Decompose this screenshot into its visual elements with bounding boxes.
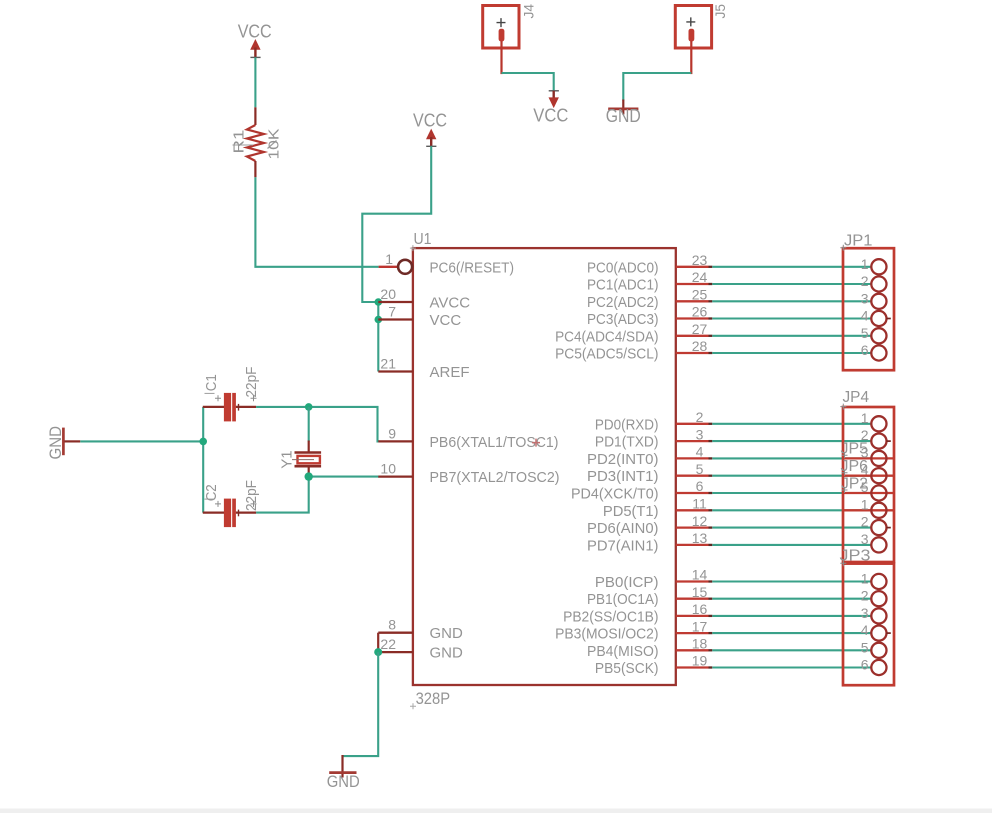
wire C1 to junction [256,406,309,408]
svg-text:VCC: VCC [430,312,462,329]
ground GND (below J5) [606,100,641,126]
pin 14 PB0(ICP) stub [595,567,712,591]
supply VCC (middle) [413,111,447,147]
svg-text:PD6(AIN0): PD6(AIN0) [587,520,659,537]
svg-text:20: 20 [380,286,396,302]
svg-text:1: 1 [861,410,869,426]
svg-text:1: 1 [861,571,869,587]
svg-text:PB0(ICP): PB0(ICP) [595,574,659,591]
junction at VCC [375,316,383,324]
svg-text:GND: GND [606,106,641,126]
svg-text:25: 25 [692,287,708,303]
svg-text:GND: GND [430,645,464,662]
wire PC0(ADC0) to header [712,266,871,268]
pin 2 PD0(RXD) stub [595,409,712,433]
wire PC5(ADC5/SCL) to header [712,352,871,354]
svg-text:1: 1 [861,256,869,272]
connector J4 (solder pad) [483,4,537,48]
stack row7 tick [887,527,891,529]
stack pin row 2 [861,427,887,449]
stack pin row 4 [861,462,887,484]
wire PC1(ADC1) to header [712,283,871,285]
wire J5 lead [690,41,692,74]
pin 9 PB6 stub [378,425,413,441]
wire VCC to R1 [254,57,256,107]
svg-text:PC5(ADC5/SCL): PC5(ADC5/SCL) [555,346,658,363]
svg-text:21: 21 [380,356,396,372]
U1 label [410,231,432,251]
pin 18 PB4(MISO) stub [587,636,712,660]
svg-text:7: 7 [388,304,396,320]
op IC U1 ATmega328P box [413,248,676,685]
pin 6 PD4(XCK/T0) stub [571,478,712,502]
resistor R1 10K [231,107,283,177]
svg-text:27: 27 [692,321,708,337]
svg-text:C1: C1 [203,374,220,391]
JP1 pin 4 [861,308,887,327]
svg-text:26: 26 [692,304,708,320]
wire PB2(SS/OC1B) to header [712,615,871,617]
wire PC4(ADC4/SDA) to header [712,335,871,337]
wire PC2(ADC2) to header [712,300,871,302]
JP3 pin 5 [861,639,887,658]
wire PD1(TXD) to header [712,440,871,442]
svg-text:5: 5 [861,325,869,341]
svg-text:PC4(ADC4/SDA): PC4(ADC4/SDA) [555,328,658,345]
svg-text:U1: U1 [414,231,432,248]
stack row2 tick [887,440,891,442]
svg-text:16: 16 [692,601,708,617]
supply VCC (below J4, arrow down) [533,91,568,126]
svg-text:6: 6 [696,478,704,494]
stack pin row 7 [861,514,887,536]
JP3 pin 3 [861,605,887,624]
svg-text:PD7(AIN1): PD7(AIN1) [587,537,659,554]
svg-text:PD5(T1): PD5(T1) [603,503,659,520]
svg-text:8: 8 [388,617,396,633]
stack pin row 8 [861,531,887,553]
svg-text:PC2(ADC2): PC2(ADC2) [587,294,659,311]
wire PD0(RXD) to header [712,423,871,425]
crystal Y1 [278,441,321,478]
pin 3 PD1(TXD) stub [595,426,712,450]
JP1 pin 1 [861,256,887,275]
pin 28 PC5(ADC5/SCL) stub [555,338,712,362]
wire PD3(INT1) to header [712,475,871,477]
svg-text:1: 1 [385,251,393,267]
pin 5 PD3(INT1) stub [587,461,712,485]
svg-text:3: 3 [861,605,869,621]
pin 23 PC0(ADC0) stub [587,252,712,276]
wire PD2(INT0) to header [712,457,871,459]
wire Y1 down to C2 [256,477,309,513]
wire Y1 to PB7 [309,476,379,478]
stack pin row 6 [861,496,887,518]
pin 4 PD2(INT0) stub [587,444,712,468]
wire VCC to AVCC/VCC pins [362,146,431,302]
stack pin row 1 [861,410,887,432]
wire PD7(AIN1) to header [712,544,871,546]
svg-text:6: 6 [861,657,869,673]
JP3 pin4 tick [887,632,891,634]
svg-text:JP1: JP1 [844,233,873,250]
connector J5 (solder pad) [675,4,728,48]
pin 27 PC4(ADC4/SDA) stub [555,321,712,345]
wire junction down to Y1 [308,407,310,442]
pin 25 PC2(ADC2) stub [587,287,712,311]
pin 16 PB2(SS/OC1B) stub [563,601,712,625]
pin 17 PB3(MOSI/OC2) stub [555,618,712,642]
svg-text:JP4: JP4 [843,389,870,406]
svg-text:2: 2 [696,409,704,425]
wire junction to PB6 [309,407,380,442]
svg-text:5: 5 [696,461,704,477]
svg-text:JP3: JP3 [840,547,871,564]
svg-text:10: 10 [380,461,396,477]
bottom gray strip [0,809,992,813]
svg-text:1: 1 [861,496,869,512]
svg-text:18: 18 [692,636,708,652]
wire J4 to VCC [502,73,554,91]
JP1 pin 2 [861,273,887,292]
svg-text:22pF: 22pF [243,480,260,511]
wire PD6(AIN0) to header [712,527,871,529]
svg-text:15: 15 [692,584,708,600]
ground GND (bottom) [327,755,360,791]
wire U1 GND down [343,652,379,756]
junction GND/caps [199,438,207,446]
junction Y1/PB7 [305,472,313,480]
svg-text:AVCC: AVCC [430,295,471,312]
svg-text:VCC: VCC [533,106,568,126]
svg-text:9: 9 [388,425,396,441]
pin 11 PD5(T1) stub [603,496,712,520]
slashed zero in 10K [268,141,277,149]
svg-text:R1: R1 [231,130,248,154]
pin 26 PC3(ADC3) stub [587,304,712,328]
svg-text:24: 24 [692,269,708,285]
svg-text:22pF: 22pF [243,367,260,398]
wire PB0(ICP) to header [712,580,871,582]
JP3 pin 1 [861,571,887,590]
svg-text:12: 12 [692,513,708,529]
svg-text:PC3(ADC3): PC3(ADC3) [587,311,659,328]
JP3 pin 4 [861,622,887,641]
wire PB5(SCK) to header [712,666,871,668]
svg-text:PB3(MOSI/OC2): PB3(MOSI/OC2) [555,626,658,643]
JP1 pin 3 [861,290,887,309]
pin 22 GND22 stub [378,636,413,652]
JP1 pin 5 [861,325,887,344]
svg-text:VCC: VCC [413,111,447,131]
wire PD5(T1) to header [712,509,871,511]
JP1 pin 6 [861,342,887,361]
pin 10 PB7 stub [378,461,413,477]
svg-text:28: 28 [692,338,708,354]
pin 20 AVCC stub [378,286,413,302]
label JP6 [841,458,869,476]
wire GND pin8 to pin22 [377,633,379,652]
svg-text:4: 4 [861,308,869,324]
connector JP1 [840,233,894,371]
svg-text:PD3(INT1): PD3(INT1) [587,468,659,485]
wire caps vertical [202,407,204,513]
svg-text:19: 19 [692,653,708,669]
svg-text:2: 2 [861,588,869,604]
svg-text:AREF: AREF [430,364,470,381]
svg-text:3: 3 [861,531,869,547]
svg-text:23: 23 [692,252,708,268]
svg-text:2: 2 [861,514,869,530]
svg-text:3: 3 [696,426,704,442]
svg-text:PC6(/RESET): PC6(/RESET) [430,259,515,276]
svg-text:PD4(XCK/T0): PD4(XCK/T0) [571,486,659,503]
svg-text:PB4(MISO): PB4(MISO) [587,643,659,660]
svg-text:GND: GND [430,625,464,642]
svg-text:3: 3 [861,290,869,306]
wire PB3(MOSI/OC2) to header [712,632,871,634]
JP3 pin 6 [861,657,887,676]
svg-text:2: 2 [861,273,869,289]
wire GND to caps [80,440,203,442]
svg-text:J4: J4 [520,4,536,19]
JP3 pin 2 [861,588,887,607]
svg-text:PD2(INT0): PD2(INT0) [587,451,659,468]
svg-text:4: 4 [696,444,704,460]
svg-text:4: 4 [861,622,869,638]
supply VCC (top left) [238,22,272,58]
wire J4 lead [500,41,502,74]
junction GND pin22 [374,648,382,656]
wire J5 to GND [623,73,691,101]
label JP2 [841,475,868,493]
svg-text:6: 6 [861,342,869,358]
wire R1 to U1 pin1 [255,177,378,266]
svg-text:17: 17 [692,618,708,634]
value 328P [410,689,450,709]
svg-text:VCC: VCC [238,22,272,42]
pin 12 PD6(AIN0) stub [587,513,712,537]
wire PB4(MISO) to header [712,649,871,651]
pin 21 AREF stub [378,356,413,372]
pin 1 PC6(/RESET) stub [379,251,413,274]
svg-text:Y1: Y1 [278,450,295,469]
svg-text:PD0(RXD): PD0(RXD) [595,416,659,433]
junction C1/Y1 [305,403,313,411]
pin 19 PB5(SCK) stub [595,653,712,677]
stack pin row 3 [861,444,887,466]
pin 7 VCC stub [378,304,413,320]
label JP4 [840,389,869,409]
svg-text:328P: 328P [416,689,451,708]
svg-text:PD1(TXD): PD1(TXD) [595,434,659,451]
svg-text:J5: J5 [712,4,728,19]
svg-text:PC0(ADC0): PC0(ADC0) [587,259,659,276]
svg-text:22: 22 [380,636,396,652]
U1 left pin names [430,259,560,661]
JP1 pin4 tick [887,318,891,320]
connector JP4/JP5/JP6/JP2 stack box [843,407,894,562]
svg-text:5: 5 [861,639,869,655]
wire PC3(ADC3) to header [712,317,871,319]
svg-text:PB2(SS/OC1B): PB2(SS/OC1B) [563,608,658,625]
junction at AVCC [375,298,383,306]
svg-text:PB7(XTAL2/TOSC2): PB7(XTAL2/TOSC2) [430,469,560,486]
capacitor C1 22pF [203,367,260,422]
svg-text:PB1(OC1A): PB1(OC1A) [587,591,659,608]
ground GND (left) [46,426,80,460]
svg-text:PC1(ADC1): PC1(ADC1) [587,277,659,294]
capacitor C2 22pF [203,480,260,527]
label JP5 [841,441,869,459]
svg-text:13: 13 [692,530,708,546]
stack pin row 5 [861,479,887,501]
svg-text:11: 11 [692,496,707,512]
red cross mark over TOSC1 [532,439,540,447]
pin 8 GND8 stub [378,617,413,633]
svg-text:14: 14 [692,567,708,583]
pin 15 PB1(OC1A) stub [587,584,712,608]
connector JP3 [840,547,895,685]
svg-text:PB5(SCK): PB5(SCK) [595,660,659,677]
svg-text:10K: 10K [266,129,283,160]
wire AVCC to VCC to AREF [377,302,379,372]
wire PD4(XCK/T0) to header [712,492,871,494]
R1 strike line [233,144,254,146]
wire PB1(OC1A) to header [712,598,871,600]
svg-text:GND: GND [327,772,360,791]
pin 13 PD7(AIN1) stub [587,530,712,554]
pin 24 PC1(ADC1) stub [587,269,712,293]
